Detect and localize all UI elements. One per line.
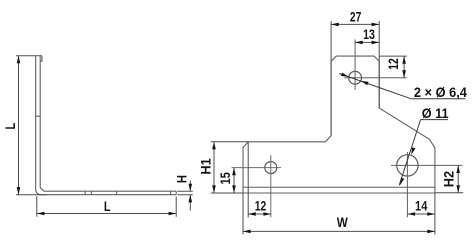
- svg-text:L: L: [104, 198, 111, 214]
- svg-text:12: 12: [386, 58, 401, 70]
- vertical leg inner edge + flange top edge: [40, 56, 176, 192]
- centerlines: [391, 152, 463, 217]
- dimension H2: [435, 165, 463, 192]
- dimension 14 (bottom right): [408, 193, 435, 234]
- leader Ø 11: [399, 120, 448, 186]
- centerlines: [232, 155, 281, 217]
- svg-text:2 × Ø 6,4: 2 × Ø 6,4: [414, 85, 467, 100]
- dimension 13: [355, 41, 379, 43]
- leg top-right small step: [40, 56, 42, 62]
- tick on vertical leg: [36, 115, 41, 117]
- dimension H1: [211, 142, 249, 193]
- hole bottom-left (Ø6,4): [265, 162, 277, 174]
- dimension L (horizontal): [37, 196, 176, 217]
- dimension H (thickness): [177, 180, 192, 210]
- dimension L (vertical): [16, 56, 47, 195]
- svg-text:27: 27: [350, 10, 362, 25]
- leader 2 x Ø 6,4: [339, 74, 465, 99]
- svg-text:L: L: [3, 123, 18, 130]
- dimension 27: [331, 21, 379, 136]
- svg-text:H2: H2: [442, 170, 457, 187]
- hole small top centerlines: [345, 40, 407, 91]
- ticks on flange: [85, 191, 117, 195]
- dimension W: [243, 230, 435, 232]
- hole small top (Ø6,4): [349, 71, 362, 84]
- svg-text:Ø 11: Ø 11: [422, 106, 449, 121]
- dimension 12 (tab): [379, 56, 407, 78]
- hole right (Ø11): [397, 155, 418, 176]
- bracket outer profile: [36, 56, 177, 195]
- dimension 12 (bottom left): [243, 142, 271, 235]
- dimension 15: [233, 168, 235, 193]
- svg-text:15: 15: [218, 172, 233, 185]
- plate outline: [243, 56, 435, 193]
- fold line: [243, 186, 435, 188]
- svg-text:13: 13: [363, 27, 375, 42]
- leg top edge: [36, 55, 42, 57]
- vertical leg outer edge + bottom edge: [36, 56, 177, 195]
- svg-text:H: H: [175, 175, 190, 183]
- svg-text:W: W: [337, 215, 349, 230]
- svg-text:14: 14: [415, 198, 428, 213]
- svg-text:H1: H1: [198, 158, 213, 175]
- svg-text:12: 12: [255, 199, 267, 214]
- flange end cap: [175, 191, 177, 195]
